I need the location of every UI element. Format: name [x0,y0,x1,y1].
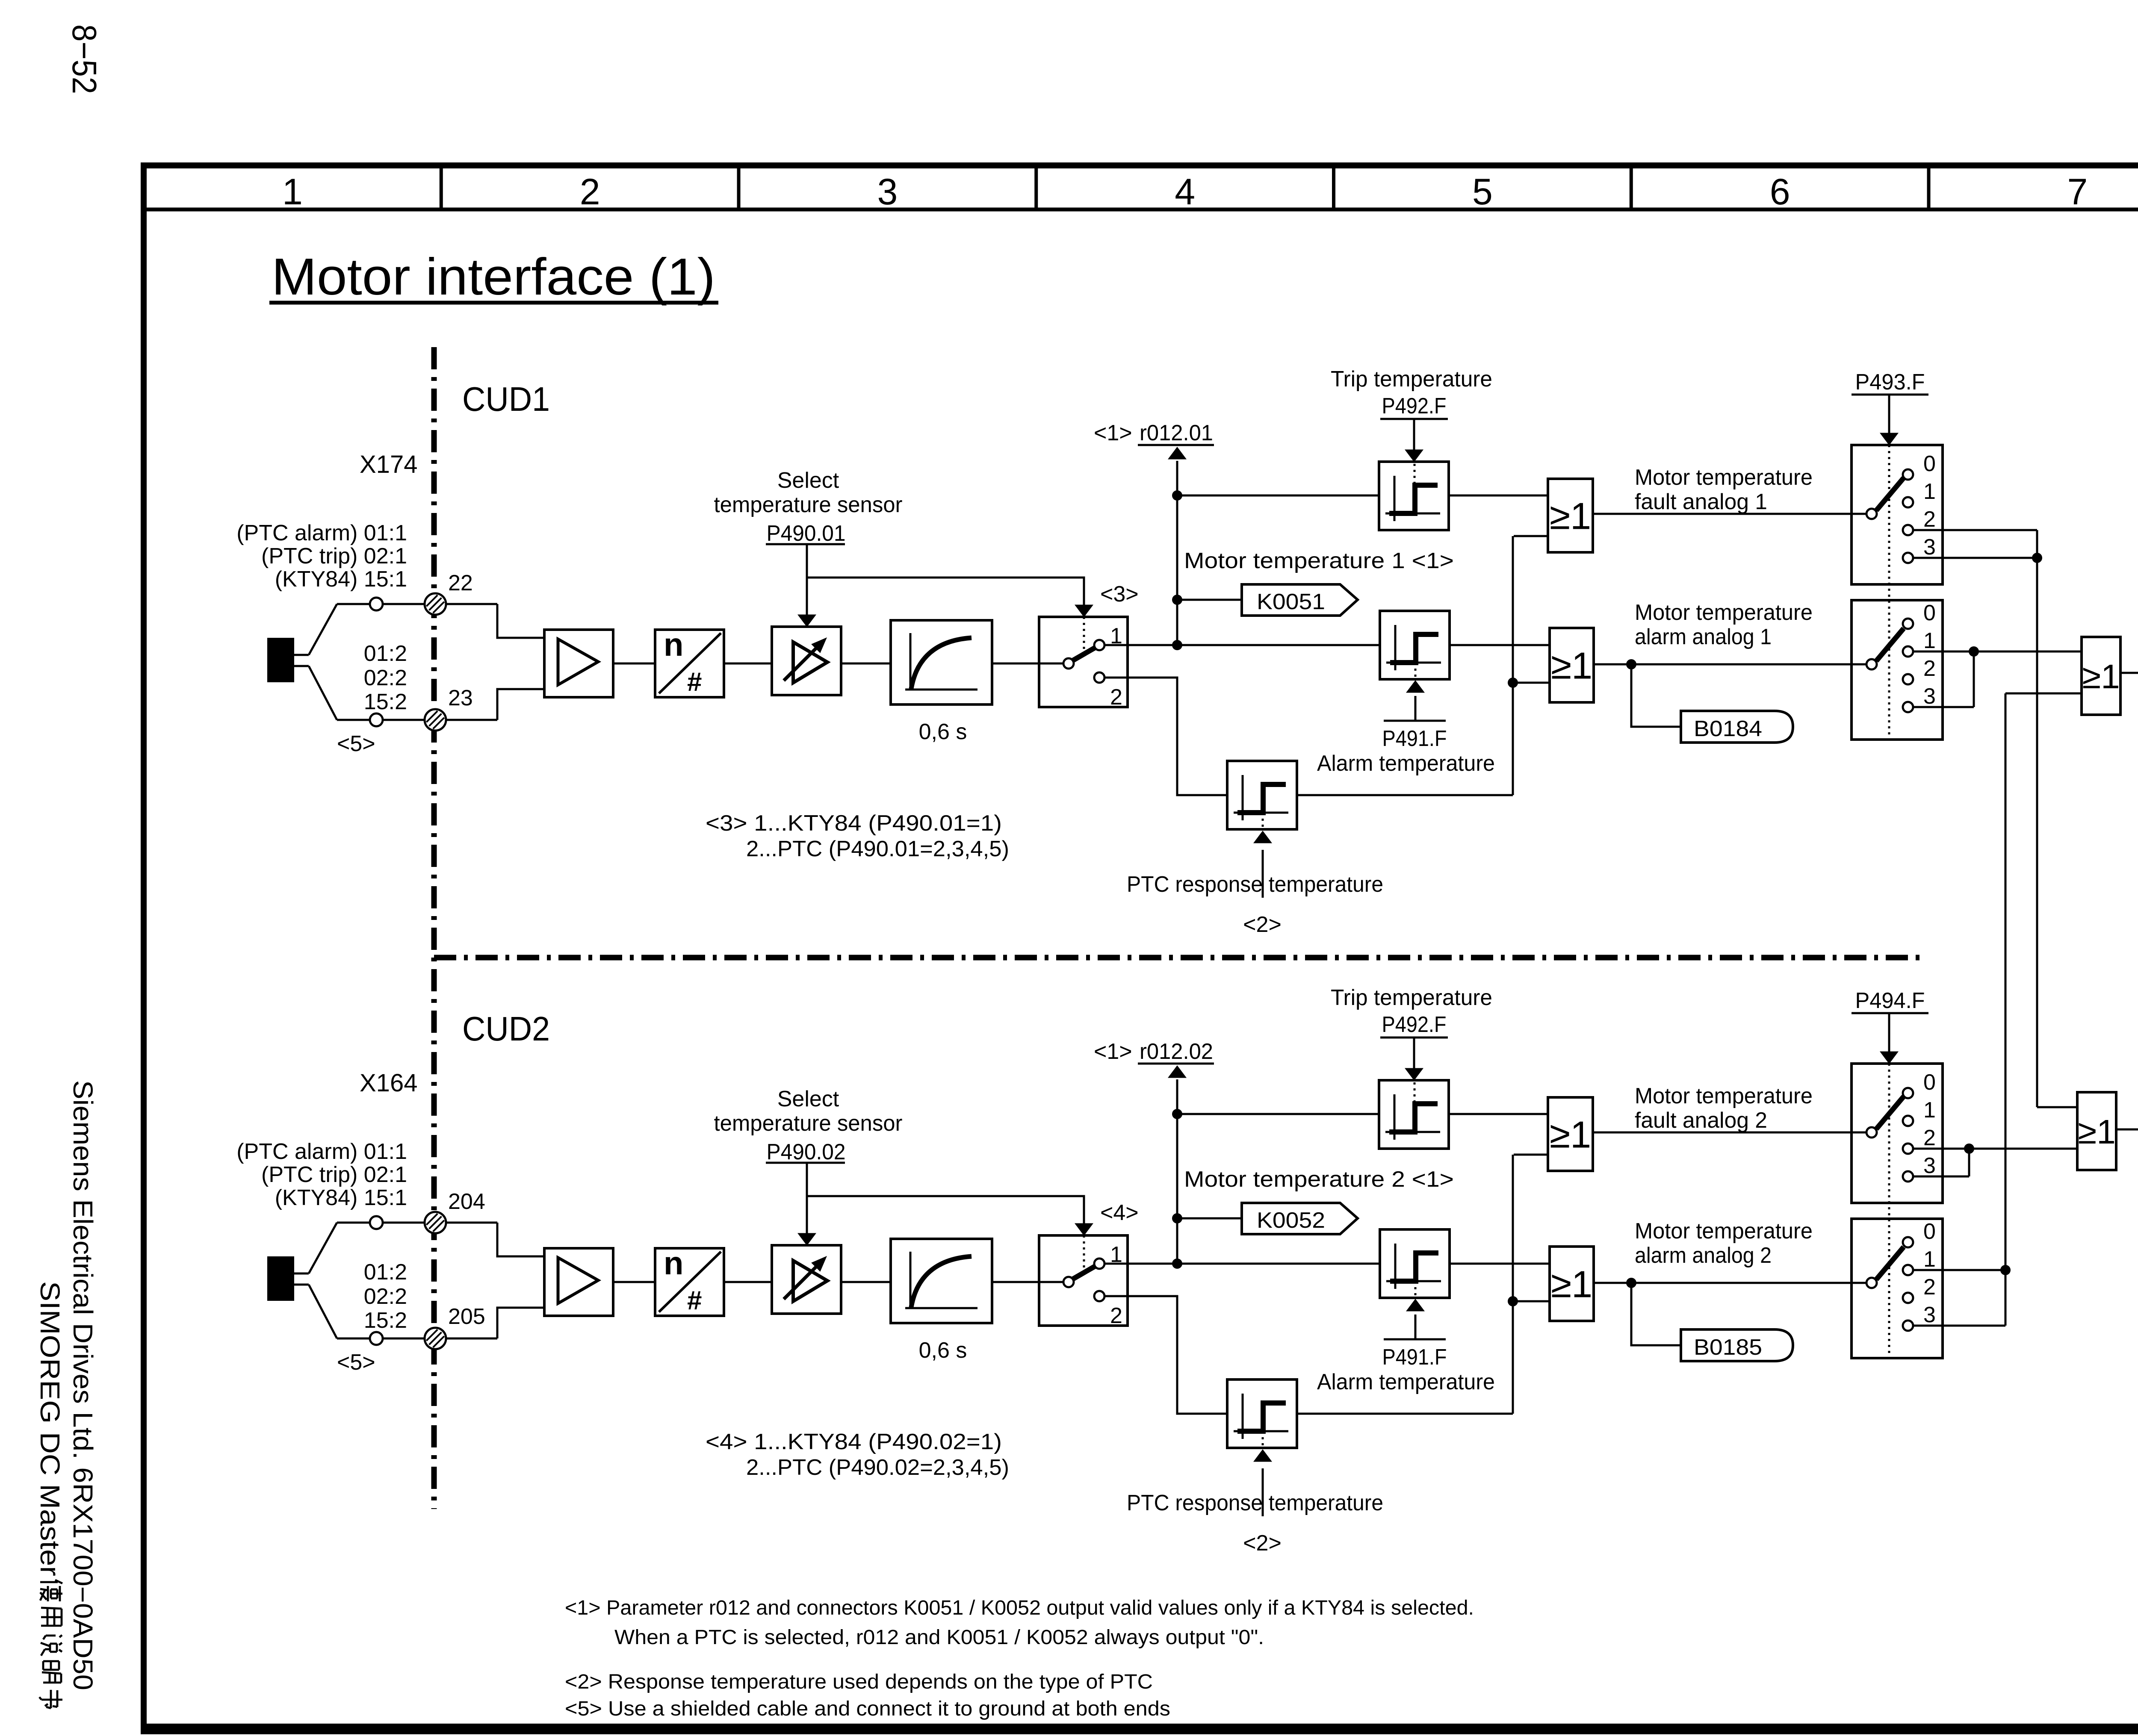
wire filter to switch [992,663,1063,665]
final fault OR gate [2077,1092,2116,1170]
wire bottom pin run [337,719,497,721]
fault OR gate [1548,479,1593,552]
final fault OR output wire [2116,1129,2138,1131]
alarm mux contact 3 [1903,1320,1913,1331]
switch contact 1 [1094,1259,1104,1269]
svg-text:Select: Select [777,1087,839,1111]
svg-text:n: n [664,627,683,663]
CUD2 fault mux contact2 wire [1913,1148,1969,1150]
svg-text:6: 6 [1770,171,1790,212]
alarm net vertical from CUD2 [2005,693,2007,1270]
main KTY signal wire [1104,644,1380,646]
svg-text:2: 2 [1110,1303,1122,1328]
CUD2 alarm tie vertical [2005,1270,2007,1326]
junction dot binector branch [1626,659,1636,669]
fault OR lower input wire [1514,1154,1548,1156]
binector flag B0184 [1681,711,1793,743]
dash-dot CUD1/CUD2 separator horizontal [434,955,1921,961]
svg-text:0: 0 [1923,1219,1936,1244]
svg-text:P492.F: P492.F [1382,1012,1447,1037]
svg-text:Alarm temperature: Alarm temperature [1317,751,1495,776]
fault mux contact 3 [1903,1171,1913,1182]
alarm OR gate [1550,1247,1594,1321]
svg-text:Motor temperature 1 <1>: Motor temperature 1 <1> [1184,548,1454,573]
svg-text:(PTC alarm) 01:1: (PTC alarm) 01:1 [236,521,407,545]
svg-text:≥1: ≥1 [1550,495,1591,537]
trip threshold comparator [1379,462,1449,530]
alarm threshold comparator [1380,1229,1450,1298]
alarm selector switch box [1852,600,1943,740]
binector drop wire [1631,664,1681,727]
svg-text:15:2: 15:2 [364,690,407,714]
svg-text:Alarm temperature: Alarm temperature [1317,1370,1495,1394]
PTC response comparator [1227,1379,1297,1448]
wire into amp bottom [497,1308,544,1338]
alarm mux contact 3 [1903,702,1913,712]
parameter stem wire [806,544,808,616]
svg-text:(KTY84) 15:1: (KTY84) 15:1 [275,1185,407,1210]
svg-text:2: 2 [1923,1275,1936,1300]
parameter underline [766,543,845,545]
dash-dot CUD boundary vertical [431,347,437,1509]
svg-text:X164: X164 [360,1069,417,1097]
P491 overline [1384,1338,1446,1341]
wire diagonal down [309,1285,337,1338]
svg-text:temperature sensor: temperature sensor [714,492,903,517]
svg-text:#: # [687,667,702,697]
svg-text:0: 0 [1923,1070,1936,1095]
arrow up into alarm comparator [1406,681,1424,693]
svg-text:≥1: ≥1 [1550,1114,1591,1156]
svg-text:<2>: <2> [1243,1531,1282,1556]
parameter branch wire to switch [807,1196,1084,1224]
fault OR output wire [1593,513,1867,515]
CUD1 alarm tie vertical [1973,651,1975,707]
wire into amp top [497,604,544,638]
svg-text:0,6 s: 0,6 s [919,1338,967,1363]
P492 stem [1413,1037,1415,1069]
arrow up to r012 [1168,1066,1186,1078]
svg-text:5: 5 [1472,171,1493,212]
fault mux common contact [1866,1127,1877,1138]
svg-text:≥1: ≥1 [2078,1113,2115,1151]
svg-text:P490.02: P490.02 [767,1140,846,1164]
parameter branch wire to switch [807,578,1084,606]
PTC response comparator [1227,761,1297,829]
wire bottom pin run [337,1338,497,1340]
svg-text:15:2: 15:2 [364,1308,407,1333]
wire top pin run [337,1222,497,1224]
fault mux lever [1876,1096,1904,1129]
PTC response arrow shaft [1262,850,1264,898]
binector drop wire [1631,1283,1681,1345]
fault net into final OR [2037,1106,2077,1108]
junction dot CUD2 alarm tie [2000,1265,2011,1275]
svg-text:(PTC alarm) 01:1: (PTC alarm) 01:1 [236,1139,407,1164]
amplifier block U-amp [544,630,613,697]
arrow into fault mux [1880,1052,1898,1064]
svg-text:3: 3 [1923,1303,1936,1327]
switch lever [1073,1266,1095,1279]
alarm mux common contact [1866,659,1877,669]
sensor select switch box [1039,617,1128,707]
wire PTC comp output [1296,794,1513,796]
wire top pin run [337,603,497,605]
svg-text:2: 2 [1923,656,1936,681]
switch common contact [1063,1277,1074,1287]
amplifier block U-amp [544,1248,613,1316]
svg-text:r012.01: r012.01 [1140,421,1213,445]
footer SIMOREG DC Master (rotated) [35,1281,65,1708]
A/D converter block n/# [655,630,724,697]
svg-text:<2> Response temperature used: <2> Response temperature used depends on… [565,1671,1153,1693]
final alarm OR output wire [2120,672,2138,674]
P493 underline [1852,394,1928,396]
page number 8-52 (rotated) [65,24,103,94]
junction dot CUD2 fault tie [1964,1144,1974,1154]
arrow into scaler [798,1233,816,1245]
P492 underline [1380,1037,1448,1039]
P493 stem [1888,1013,1890,1052]
svg-text:3: 3 [1923,684,1936,709]
svg-text:2: 2 [1110,685,1122,710]
arrow into sensor switch [1075,605,1093,617]
arrow into fault mux [1880,433,1898,445]
fault mux common contact [1866,509,1877,519]
adjustable scaling amplifier [772,627,841,695]
shield terminal 204 [425,1212,446,1233]
arrow up into PTC comparator [1254,831,1272,843]
svg-text:alarm analog 1: alarm analog 1 [1635,625,1772,649]
svg-text:<2>: <2> [1243,912,1282,937]
alarm mux lever [1876,628,1904,661]
svg-text:02:2: 02:2 [364,1284,407,1309]
terminal circle top [370,598,383,610]
svg-text:Motor temperature: Motor temperature [1635,1219,1813,1244]
svg-text:Motor temperature 2 <1>: Motor temperature 2 <1> [1184,1167,1454,1192]
CUD1 fault mux contact2 wire [1913,529,2037,531]
svg-text:When a PTC is selected, r012 a: When a PTC is selected, r012 and K0051 /… [614,1626,1264,1649]
arrow up to r012 [1168,447,1186,459]
CUD2 alarm mux contact3 wire [1913,1325,2005,1327]
CUD1 alarm mux contact1 wire [1913,651,2082,653]
junction dot PTC riser [1508,1296,1518,1306]
svg-text:P492.F: P492.F [1382,394,1447,419]
fault mux contact 1 [1903,1116,1913,1126]
PTC signal riser [1512,1155,1514,1414]
alarm mux contact 0 [1903,1237,1913,1247]
svg-text:<4> 1...KTY84 (P490.02=1): <4> 1...KTY84 (P490.02=1) [706,1429,1002,1454]
alarm OR gate [1550,628,1594,702]
wire amp to A/D [613,1281,655,1283]
shield terminal 22 [425,593,446,615]
svg-text:2: 2 [580,171,600,212]
svg-text:4: 4 [1175,171,1195,212]
svg-text:7: 7 [2067,171,2088,212]
svg-text:1: 1 [1923,1247,1936,1272]
junction dot trip branch [1172,1109,1182,1119]
PTC signal riser [1512,536,1514,795]
wire sensor to split [294,1273,309,1275]
svg-text:0: 0 [1923,601,1936,625]
fault OR lower input wire [1514,535,1548,537]
CUD1 fault mux contact3 wire [1913,557,2037,559]
wire PTC comp output [1296,1413,1513,1415]
junction dot binector branch [1626,1278,1636,1288]
svg-text:<3> 1...KTY84 (P490.01=1): <3> 1...KTY84 (P490.01=1) [706,811,1002,836]
mux selector dotted line [1888,445,1890,740]
monitor branch riser r012 [1176,461,1178,645]
alarm mux lever [1876,1247,1904,1279]
svg-text:B0185: B0185 [1694,1335,1762,1360]
svg-text:P491.F: P491.F [1382,726,1447,751]
svg-text:B0184: B0184 [1694,716,1762,741]
svg-text:1: 1 [1923,1098,1936,1123]
svg-text:n: n [664,1245,683,1282]
svg-text:<4>: <4> [1100,1200,1139,1225]
svg-text:Siemens Electrical Drives Ltd.: Siemens Electrical Drives Ltd. 6RX1700−0… [68,1080,98,1690]
svg-text:Motor temperature: Motor temperature [1635,1084,1813,1108]
alarm mux contact 2 [1903,1293,1913,1303]
svg-text:≥1: ≥1 [2082,657,2120,696]
svg-text:Motor temperature: Motor temperature [1635,600,1813,625]
svg-text:2: 2 [1923,1126,1936,1150]
alarm mux contact 0 [1903,619,1913,629]
switch lever [1073,648,1095,660]
junction dot K connector branch [1172,595,1182,605]
temperature sensor connector (black) [267,638,294,682]
svg-text:r012.02: r012.02 [1140,1039,1213,1064]
temperature sensor connector (black) [267,1256,294,1301]
CUD2 fault mux contact3 wire [1913,1176,1969,1178]
alarm mux common contact [1866,1278,1877,1288]
wire to trip comparator [1177,1113,1379,1115]
footer Siemens Electrical Drives (rotated) [68,1080,98,1690]
svg-text:CUD2: CUD2 [462,1010,550,1048]
svg-text:Select: Select [777,468,839,493]
switch contact 2 [1094,1291,1104,1301]
alarm OR lower input wire [1513,682,1550,684]
svg-text:Trip temperature: Trip temperature [1331,985,1492,1010]
svg-text:CUD1: CUD1 [462,380,550,418]
smoothing filter block 0,6s [891,620,992,704]
svg-text:(PTC trip) 02:1: (PTC trip) 02:1 [261,544,407,569]
svg-text:3: 3 [1923,535,1936,560]
wire to trip comparator [1177,495,1379,497]
P492 underline [1380,418,1448,420]
svg-text:3: 3 [1923,1153,1936,1178]
r012 underline [1138,444,1214,446]
arrow into sensor switch [1075,1223,1093,1235]
main KTY signal wire [1104,1263,1380,1265]
wire alarm comp to alarm OR [1450,644,1550,646]
monitor branch riser r012 [1176,1079,1178,1264]
fault mux contact 2 [1903,525,1913,535]
svg-text:0,6 s: 0,6 s [919,719,967,744]
junction dot fault tie [2032,553,2042,563]
fault mux contact 0 [1903,469,1913,480]
svg-text:SIMOREG DC Master: SIMOREG DC Master [35,1281,65,1576]
P491 arrow shaft [1415,1315,1417,1338]
P491 overline [1384,720,1446,722]
svg-text:P493.F: P493.F [1855,370,1925,395]
svg-text:01:2: 01:2 [364,1260,407,1285]
junction dot CUD1 alarm tie [1969,646,1979,657]
svg-text:≥1: ≥1 [1551,645,1592,687]
r012 underline [1138,1063,1214,1065]
svg-text:3: 3 [877,171,898,212]
junction dot PTC riser [1508,678,1518,688]
PTC signal wire [1104,678,1227,795]
svg-text:22: 22 [448,571,473,595]
svg-text:K0051: K0051 [1257,589,1325,614]
wire alarm comp to alarm OR [1450,1263,1550,1265]
wire trip comp to fault OR [1449,1113,1548,1115]
alarm mux contact 2 [1903,674,1913,684]
svg-text:P494.F: P494.F [1855,988,1925,1013]
wire trip comp to fault OR [1449,495,1548,497]
alarm OR output wire [1594,1282,1867,1284]
svg-text:205: 205 [448,1304,485,1329]
svg-text:2...PTC (P490.02=2,3,4,5): 2...PTC (P490.02=2,3,4,5) [746,1455,1009,1480]
A/D converter block n/# [655,1248,724,1316]
svg-text:<5>: <5> [337,731,375,756]
terminal circle bottom [370,1332,383,1345]
svg-text:temperature sensor: temperature sensor [714,1111,903,1136]
arrow up into PTC comparator [1254,1450,1272,1462]
svg-text:fault analog 1: fault analog 1 [1635,489,1767,514]
svg-text:<5>: <5> [337,1350,375,1375]
CUD1 alarm mux contact3 wire [1913,706,1974,708]
svg-text:X174: X174 [360,451,417,478]
junction dot trip branch [1172,490,1182,501]
svg-text:PTC response temperature: PTC response temperature [1127,872,1383,897]
header separator line [141,208,2138,212]
svg-text:<1>: <1> [1094,1039,1132,1064]
shield terminal 23 [425,709,446,731]
svg-text:8−52: 8−52 [65,24,103,94]
fault mux lever [1876,478,1904,510]
wire into amp bottom [497,689,544,720]
arrow into scaler [798,615,816,627]
wire diagonal down [309,666,337,720]
wire A/D to scaler [724,1281,772,1283]
binector flag B0185 [1681,1329,1793,1361]
svg-text:02:2: 02:2 [364,666,407,690]
switch common contact [1063,658,1074,669]
K connector flag [1242,1203,1358,1234]
P491 arrow shaft [1415,696,1417,720]
CUD2 fault tie vertical [1968,1149,1970,1176]
junction dot main wire [1172,640,1182,650]
junction dot main wire [1172,1259,1182,1269]
svg-text:#: # [687,1286,702,1315]
fault selector switch box [1852,1064,1943,1203]
alarm OR lower input wire [1513,1300,1550,1303]
bottom frame thick edge [141,1727,2138,1734]
svg-text:204: 204 [448,1189,485,1214]
fault mux contact 2 [1903,1144,1913,1154]
shield terminal 205 [425,1328,446,1349]
svg-text:≥1: ≥1 [1551,1263,1592,1306]
trip threshold comparator [1379,1080,1449,1149]
wire amp to A/D [613,663,655,665]
arrow up into alarm comparator [1406,1299,1424,1311]
fault OR output wire [1593,1132,1867,1134]
P492 stem [1413,419,1415,451]
switch contact 1 [1094,640,1104,650]
CUD2 fault wire into final OR [1969,1148,2077,1150]
terminal circle bottom [370,713,383,726]
fault mux contact 3 [1903,553,1913,563]
svg-text:01:2: 01:2 [364,641,407,666]
fault mux contact 1 [1903,497,1913,507]
wire into amp top [497,1223,544,1256]
K connector flag [1242,584,1358,616]
PTC response arrow shaft [1262,1468,1264,1516]
column divider lines [440,168,443,209]
alarm threshold comparator [1380,611,1450,679]
alarm mux contact 1 [1903,646,1913,657]
wire sensor to split [294,654,309,656]
arrow into trip comparator [1405,1068,1423,1080]
svg-text:P490.01: P490.01 [767,521,846,546]
alarm OR output wire [1594,663,1867,666]
adjustable scaling amplifier [772,1245,841,1314]
svg-text:1: 1 [1923,628,1936,653]
P493 stem [1888,395,1890,434]
wire scaler to filter [841,1281,891,1283]
svg-text:<1> Parameter r012 and connec: <1> Parameter r012 and connectors K0051 … [565,1597,1474,1619]
wire filter to switch [992,1281,1063,1283]
title underline [269,301,718,305]
fault selector switch box [1852,445,1943,584]
wire A/D to scaler [724,663,772,665]
alarm mux contact 1 [1903,1265,1913,1275]
svg-text:2: 2 [1923,507,1936,532]
svg-text:alarm analog 2: alarm analog 2 [1635,1243,1772,1268]
CUD2 alarm mux contact1 wire [1913,1269,2005,1271]
svg-text:PTC response temperature: PTC response temperature [1127,1491,1383,1515]
svg-text:1: 1 [1923,479,1936,504]
sensor select switch box [1039,1235,1128,1326]
smoothing filter block 0,6s [891,1239,992,1323]
parameter stem wire [806,1163,808,1234]
fault mux contact 0 [1903,1088,1913,1098]
svg-text:<5> Use a shielded cable and c: <5> Use a shielded cable and connect it … [565,1698,1170,1720]
svg-text:<3>: <3> [1100,582,1139,607]
wire diagonal up [309,1223,337,1273]
final alarm OR gate [2082,637,2120,715]
wire scaler to filter [841,663,891,665]
svg-text:1: 1 [282,171,303,212]
svg-text:K0052: K0052 [1257,1208,1325,1233]
svg-text:P491.F: P491.F [1382,1345,1447,1370]
PTC signal wire [1104,1296,1227,1414]
P493 underline [1852,1012,1928,1014]
svg-text:fault analog 2: fault analog 2 [1635,1108,1767,1133]
svg-text:(PTC trip) 02:1: (PTC trip) 02:1 [261,1162,407,1187]
alarm net into final OR [2005,693,2082,695]
alarm selector switch box [1852,1219,1943,1358]
wire to K connector [1177,1217,1242,1220]
terminal circle top [370,1216,383,1229]
svg-text:Motor temperature: Motor temperature [1635,465,1813,490]
wire diagonal up [309,604,337,655]
svg-text:Motor interface (1): Motor interface (1) [272,248,715,306]
svg-text:2...PTC (P490.01=2,3,4,5): 2...PTC (P490.01=2,3,4,5) [746,837,1009,861]
arrow into trip comparator [1405,450,1423,462]
